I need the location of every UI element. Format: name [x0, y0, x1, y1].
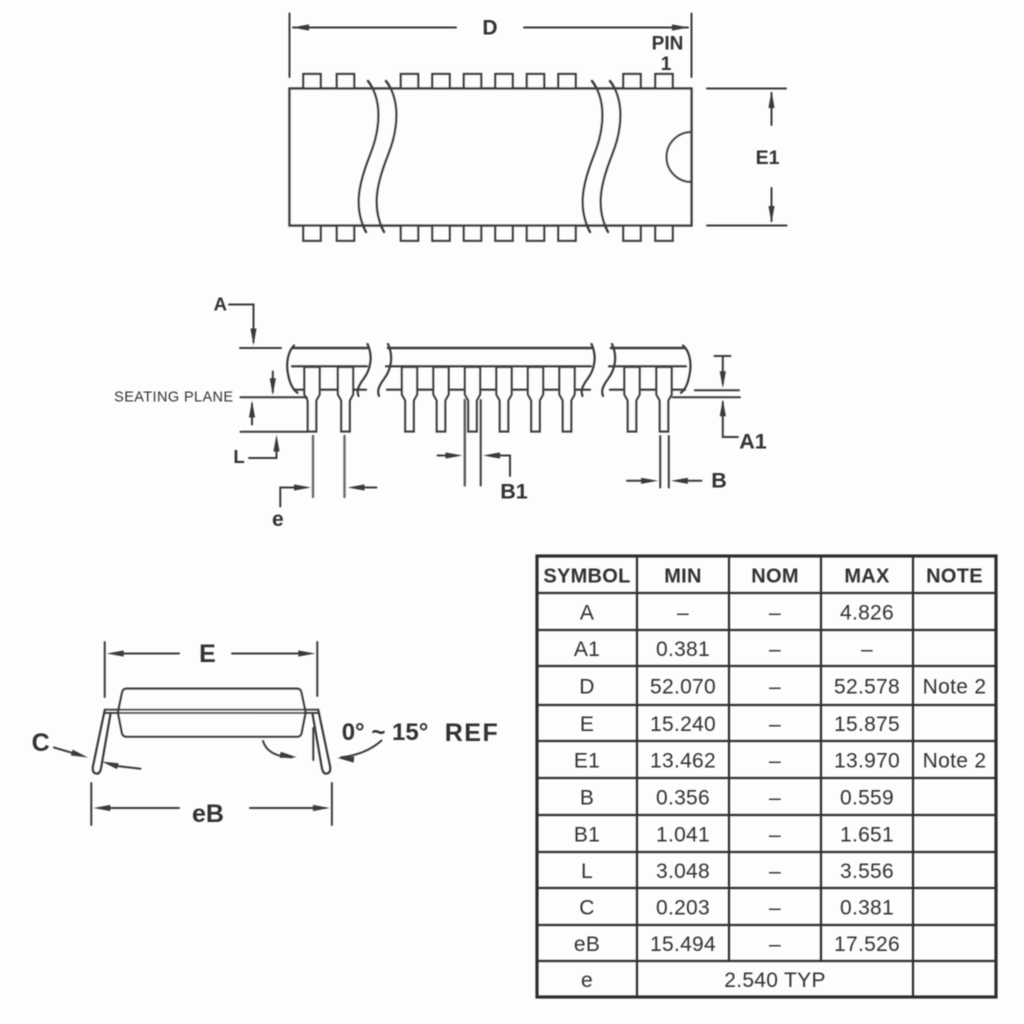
side view break 2a — [582, 344, 595, 396]
dimension L leader — [249, 440, 277, 458]
svg-text:–: – — [769, 897, 781, 920]
top view pin top 6 — [495, 74, 512, 90]
top view pin bottom 4 — [432, 225, 449, 241]
side view break 1a — [358, 344, 371, 396]
svg-text:MAX: MAX — [844, 566, 890, 588]
dimension E1 arrow shaft lower — [771, 188, 773, 221]
top view pin top 3 — [401, 74, 418, 90]
svg-text:0.381: 0.381 — [656, 638, 710, 661]
svg-text:13.970: 13.970 — [834, 750, 900, 773]
dimension e centerline 1 — [312, 436, 314, 497]
side view lead 1 — [304, 367, 319, 432]
svg-text:15.494: 15.494 — [650, 933, 716, 956]
side view lead 10 — [656, 367, 671, 432]
svg-text:0.203: 0.203 — [656, 897, 710, 920]
e right arrowhead — [348, 484, 365, 490]
svg-text:3.048: 3.048 — [656, 860, 710, 883]
eB right arrowhead — [313, 805, 330, 811]
svg-text:0.559: 0.559 — [840, 787, 894, 810]
dimension B1 line 1 — [464, 400, 466, 486]
D right arrowhead — [672, 24, 689, 30]
top view break line 1b — [377, 81, 397, 232]
svg-text:–: – — [769, 750, 781, 773]
top view: bottom row pins — [303, 225, 672, 241]
svg-text:PIN: PIN — [652, 34, 684, 55]
svg-text:A1: A1 — [739, 430, 767, 454]
top view break line 2a — [583, 81, 603, 232]
dimension eB left shaft — [110, 807, 179, 809]
svg-text:D: D — [482, 17, 497, 40]
dimension A1 lower leader — [723, 402, 738, 437]
angle reference vertical line — [312, 728, 314, 760]
svg-text:0.381: 0.381 — [840, 897, 894, 920]
dimension E extension line right — [316, 642, 318, 696]
side view body bottom lines — [292, 365, 686, 367]
dimension D line right segment — [524, 27, 688, 29]
side view lead 5 — [465, 367, 480, 432]
svg-text:2.540 TYP: 2.540 TYP — [724, 969, 826, 992]
svg-text:–: – — [769, 933, 781, 956]
top view pin top 9 — [623, 74, 640, 90]
top view: top row pins — [303, 74, 672, 90]
top view pin top 8 — [558, 74, 575, 90]
svg-text:A: A — [580, 602, 594, 625]
top view pin bottom 9 — [623, 225, 640, 241]
top view pin bottom 6 — [495, 225, 512, 241]
seating plane up arrowhead — [249, 401, 255, 418]
dimension D extension line right — [691, 14, 693, 78]
end view body — [118, 689, 305, 737]
svg-text:–: – — [677, 602, 689, 625]
E1 lower arrowhead — [768, 206, 774, 223]
svg-text:Note 2: Note 2 — [923, 750, 987, 773]
svg-text:17.526: 17.526 — [834, 933, 900, 956]
dimension D line left segment — [293, 27, 456, 29]
B1 right arrowhead — [483, 452, 500, 458]
B right arrowhead — [671, 478, 688, 484]
svg-text:e: e — [272, 508, 284, 531]
end view parting line upper — [105, 709, 318, 711]
A arrowhead — [250, 329, 256, 346]
end view parting line lower — [105, 712, 318, 714]
top view pin top 5 — [464, 74, 481, 90]
svg-text:E: E — [199, 640, 216, 668]
svg-text:B: B — [711, 469, 727, 493]
C arrowhead 2 — [101, 759, 119, 770]
side view lead 9 — [624, 367, 639, 432]
top view pin top 2 — [337, 74, 354, 90]
svg-text:E: E — [580, 713, 594, 736]
dimension E1 extension line top — [707, 88, 786, 90]
dimension e right shaft — [364, 487, 377, 489]
end view right lead — [312, 710, 330, 774]
side view lead 2 — [338, 367, 353, 432]
eB left arrowhead — [93, 805, 110, 811]
svg-text:0.356: 0.356 — [656, 787, 710, 810]
dimension A1 upper arrow shaft — [722, 356, 724, 384]
svg-text:e: e — [581, 969, 593, 992]
svg-text:–: – — [769, 713, 781, 736]
top view pin bottom 5 — [464, 225, 481, 241]
svg-text:eB: eB — [192, 800, 224, 828]
E right arrowhead — [298, 650, 315, 656]
top view pin bottom 10 — [655, 225, 672, 241]
svg-text:D: D — [579, 676, 594, 699]
dimension eB extension line right — [331, 783, 333, 825]
top view break line 1a — [359, 81, 379, 232]
dimension A1 package bottom extension — [695, 389, 739, 391]
dimension L extension line — [241, 431, 308, 433]
A1 down arrowhead — [720, 371, 726, 388]
dimension B line 2 — [668, 436, 670, 488]
seating plane line — [241, 396, 308, 398]
svg-text:15.875: 15.875 — [834, 713, 900, 736]
side view leads — [304, 367, 671, 432]
dimension e centerline 2 — [343, 436, 345, 497]
C arrowhead 1 — [71, 750, 89, 761]
svg-text:–: – — [861, 638, 873, 661]
svg-text:L: L — [233, 446, 244, 467]
dimension B1 line 2 — [480, 400, 482, 486]
svg-text:L: L — [581, 860, 593, 883]
svg-text:SEATING PLANE: SEATING PLANE — [114, 390, 233, 406]
dimension C arrow 1 shaft — [54, 748, 72, 753]
dimension A1 top tick — [715, 355, 731, 357]
seating plane upper arrow shaft — [272, 372, 274, 393]
dimension eB right shaft — [250, 807, 313, 809]
dimension E1 extension line bottom — [707, 225, 787, 227]
svg-text:52.070: 52.070 — [650, 676, 716, 699]
side view body top lines — [293, 347, 684, 350]
angle left arrowhead — [280, 752, 298, 761]
svg-text:–: – — [769, 860, 781, 883]
svg-text:B1: B1 — [500, 480, 528, 504]
L arrowhead — [273, 435, 279, 452]
svg-text:MIN: MIN — [664, 566, 702, 588]
svg-text:1.041: 1.041 — [656, 824, 710, 847]
dimension B left shaft — [627, 480, 642, 482]
svg-text:C: C — [579, 897, 594, 920]
top view pin bottom 3 — [401, 225, 418, 241]
D left arrowhead — [292, 24, 309, 30]
side view break 1b — [378, 344, 391, 396]
side view lead 3 — [402, 367, 417, 432]
seating plane down arrowhead — [270, 378, 276, 395]
A1 up arrowhead — [720, 399, 726, 416]
svg-text:NOTE: NOTE — [926, 566, 983, 588]
dimension eB extension line left — [90, 783, 92, 825]
side view lead 4 — [433, 367, 448, 432]
svg-text:15.240: 15.240 — [650, 713, 716, 736]
top view pin top 7 — [527, 74, 544, 90]
B1 left arrowhead — [446, 452, 463, 458]
svg-text:52.578: 52.578 — [834, 676, 900, 699]
svg-text:E1: E1 — [756, 147, 780, 169]
angle right arrowhead — [337, 755, 355, 763]
dimension B1 right leader — [500, 456, 511, 477]
svg-text:SYMBOL: SYMBOL — [543, 566, 630, 588]
top view pin top 10 — [655, 74, 672, 90]
svg-text:–: – — [769, 638, 781, 661]
E1 upper arrowhead — [768, 91, 774, 108]
top view package body — [290, 89, 692, 226]
svg-text:NOM: NOM — [751, 566, 799, 588]
dimension A extension line — [240, 347, 281, 349]
dimension C arrow 2 shaft — [117, 766, 141, 769]
svg-text:eB: eB — [574, 933, 600, 956]
pin-1 index notch semicircle — [667, 132, 692, 182]
svg-text:A: A — [214, 294, 227, 315]
top view break line 2b — [601, 81, 621, 232]
svg-text:0° ~ 15°: 0° ~ 15° — [342, 719, 429, 746]
side view lead 7 — [528, 367, 543, 432]
dimension B right shaft — [689, 480, 702, 482]
svg-text:Note 2: Note 2 — [923, 676, 987, 699]
side view left end cap — [287, 346, 297, 393]
svg-text:–: – — [769, 602, 781, 625]
svg-text:A1: A1 — [574, 638, 600, 661]
end view left lead — [93, 710, 111, 774]
svg-text:REF: REF — [445, 719, 500, 747]
svg-text:B1: B1 — [574, 824, 600, 847]
side view break 2b — [602, 344, 615, 396]
svg-text:1: 1 — [661, 54, 672, 75]
dimension B1 left shaft — [438, 455, 447, 457]
seating plane lower arrow shaft — [251, 404, 253, 425]
top view pin bottom 1 — [303, 225, 320, 241]
angle arc left — [263, 741, 292, 757]
svg-text:E1: E1 — [574, 750, 600, 773]
side view lead 8 — [559, 367, 574, 432]
top view pin top 4 — [432, 74, 449, 90]
svg-text:–: – — [769, 676, 781, 699]
E left arrowhead — [107, 650, 124, 656]
svg-text:–: – — [769, 824, 781, 847]
svg-text:1.651: 1.651 — [840, 824, 894, 847]
dimension e left leader — [280, 488, 295, 507]
angle arc right — [341, 741, 382, 758]
side view lead 6 — [496, 367, 511, 432]
top view pin bottom 2 — [337, 225, 354, 241]
dimension A leader — [229, 305, 254, 343]
dimension D extension line left — [289, 14, 291, 78]
svg-text:B: B — [580, 787, 594, 810]
arrowheads — [71, 24, 775, 811]
svg-text:4.826: 4.826 — [840, 602, 894, 625]
svg-text:13.462: 13.462 — [650, 750, 716, 773]
top view pin bottom 7 — [527, 225, 544, 241]
table grid — [537, 556, 996, 997]
svg-text:–: – — [769, 787, 781, 810]
dimension E extension line left — [104, 642, 106, 697]
dimension A1 seating plane extension — [673, 396, 741, 398]
svg-text:C: C — [32, 729, 50, 757]
dimension B line 1 — [659, 436, 661, 488]
side view right end cap — [681, 346, 690, 393]
B left arrowhead — [641, 478, 658, 484]
dimension E right shaft — [232, 653, 299, 655]
dimension E left shaft — [123, 653, 179, 655]
top view pin top 1 — [303, 74, 320, 90]
top view pin bottom 8 — [558, 225, 575, 241]
e left arrowhead — [294, 484, 311, 490]
side view web lines — [294, 389, 685, 391]
dimension E1 arrow shaft upper — [771, 93, 773, 125]
svg-text:3.556: 3.556 — [840, 860, 894, 883]
